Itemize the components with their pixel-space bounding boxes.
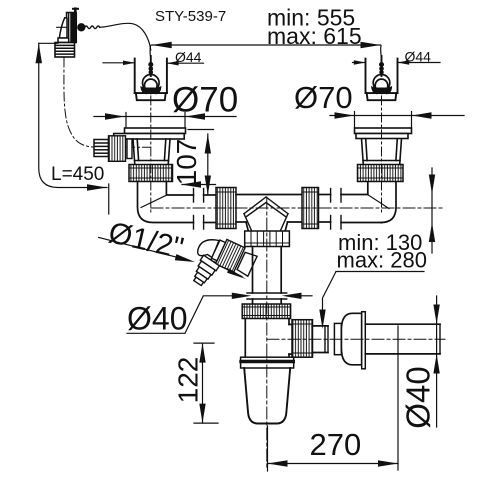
left side outlet nut xyxy=(109,136,133,162)
left side outlet spout xyxy=(94,140,109,157)
min/max 130-280 labels xyxy=(337,230,428,273)
svg-text:max: 280: max: 280 xyxy=(337,248,428,273)
min max top labels xyxy=(267,5,362,50)
washing machine connector hose barb xyxy=(189,255,220,288)
centerline outlet xyxy=(267,338,445,340)
overflow lever wedge xyxy=(59,18,67,38)
min/max 130-280 dimension line xyxy=(431,168,433,253)
right flange xyxy=(355,128,412,139)
overflow assembly xyxy=(55,9,151,57)
svg-text:270: 270 xyxy=(310,427,362,462)
overflow knob xyxy=(57,26,67,28)
overflow bolt xyxy=(74,9,77,13)
107 dimension xyxy=(188,130,214,196)
left cup xyxy=(135,59,167,101)
svg-text:Ø70: Ø70 xyxy=(172,81,238,120)
overflow cable wavy section xyxy=(85,26,100,29)
O1/2 leader xyxy=(99,238,190,261)
leader arrow at left tee nut xyxy=(182,184,216,186)
right cup xyxy=(366,59,398,101)
trap cup xyxy=(244,368,290,424)
trap side outlet xyxy=(289,324,292,354)
left flange xyxy=(114,128,186,139)
right elbow xyxy=(368,182,396,223)
left O70 dimension xyxy=(94,113,236,129)
122 dimension xyxy=(194,343,218,423)
tee right nut xyxy=(302,188,319,229)
top dimension line 555/615 xyxy=(150,45,381,59)
left union nut xyxy=(129,165,173,182)
svg-text:Ø44: Ø44 xyxy=(175,49,202,65)
svg-text:Ø70: Ø70 xyxy=(294,80,353,115)
outlet pipe stub xyxy=(313,326,329,353)
svg-text:STY-539-7: STY-539-7 xyxy=(155,8,226,25)
washing machine connector elbow body xyxy=(198,240,221,263)
left plug xyxy=(141,56,161,94)
centerline horizontal pipe xyxy=(151,207,442,209)
washing machine connector socket and nut xyxy=(210,237,258,279)
tee body with funnel xyxy=(236,195,302,232)
vertical pipe below tee xyxy=(247,247,287,305)
left elbow xyxy=(138,182,194,223)
wall flange plate xyxy=(362,312,366,369)
centerline left drain xyxy=(150,96,152,215)
right O70 dimension xyxy=(330,112,464,128)
svg-text:Ø44: Ø44 xyxy=(405,49,432,65)
wall bell neck ring xyxy=(334,323,341,354)
wall pipe xyxy=(365,324,440,354)
right strainer body xyxy=(362,139,402,165)
wall bell xyxy=(341,313,361,365)
svg-text:Ø40: Ø40 xyxy=(127,301,187,337)
pipe break right xyxy=(319,189,383,230)
right sink line + O44 label xyxy=(353,62,441,64)
connector leader second arrow xyxy=(225,268,242,277)
tee left nut xyxy=(216,188,236,229)
right union nut xyxy=(358,165,404,182)
overflow body xyxy=(67,13,77,43)
270 dimension xyxy=(268,326,399,471)
L=450 dimension xyxy=(39,43,109,214)
trap union nut xyxy=(242,304,290,319)
O40 right dimension xyxy=(436,296,438,427)
overflow cable to left cup xyxy=(100,23,151,50)
centerline right drain xyxy=(381,96,383,215)
overflow cable dash-dot path to spout xyxy=(64,58,150,147)
left strainer body xyxy=(133,139,170,165)
right plug xyxy=(372,56,392,94)
pipe break left xyxy=(194,189,217,230)
left sink line + O44 label xyxy=(103,62,204,64)
trap collar xyxy=(241,357,294,368)
overflow threaded base xyxy=(55,43,75,58)
trap upper body xyxy=(245,319,289,358)
tee lower nut xyxy=(245,231,290,247)
trap side outlet nut xyxy=(292,320,313,358)
centerline vertical pipe xyxy=(266,197,268,470)
svg-text:107: 107 xyxy=(171,139,202,186)
svg-text:122: 122 xyxy=(173,357,204,404)
svg-text:L=450: L=450 xyxy=(51,164,104,185)
svg-text:Ø40: Ø40 xyxy=(400,366,437,428)
